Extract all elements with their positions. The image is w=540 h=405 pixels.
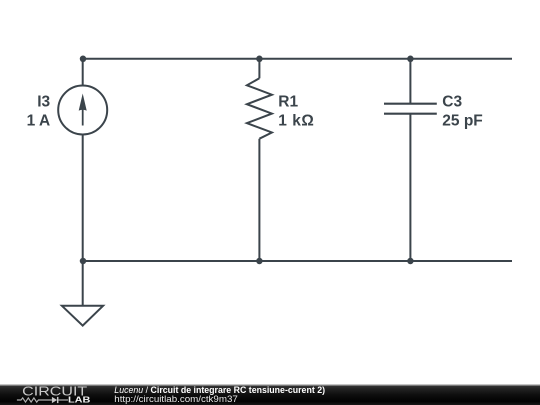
- current source I3: [58, 59, 107, 261]
- svg-text:1 A: 1 A: [27, 112, 51, 129]
- junction: top wire at I3: [80, 56, 87, 63]
- wire: bottom net from I3 to right edge: [83, 260, 512, 262]
- value 25 pF: [442, 112, 482, 129]
- junction: top wire at C3: [407, 56, 414, 63]
- label C3: [442, 94, 462, 111]
- value 1 kOhm: [278, 112, 314, 129]
- label R1: [278, 94, 298, 111]
- junction: bottom wire at I3/ground: [80, 258, 87, 265]
- resistor R1: [247, 59, 272, 261]
- svg-text:1 kΩ: 1 kΩ: [278, 112, 314, 129]
- wire: top net from I3 to right edge: [83, 58, 512, 60]
- CircuitLab logo: [17, 384, 90, 405]
- svg-text:25 pF: 25 pF: [442, 112, 482, 129]
- junction: bottom wire at R1: [256, 258, 263, 265]
- title text: [114, 385, 325, 395]
- junction: bottom wire at C3: [407, 258, 414, 265]
- junction: top wire at R1: [256, 56, 263, 63]
- footer bar: [0, 385, 540, 405]
- url text: [114, 394, 238, 404]
- capacitor C3: [384, 59, 437, 261]
- value 1 A: [27, 112, 51, 129]
- svg-text:http://circuitlab.com/ctk9m37: http://circuitlab.com/ctk9m37: [114, 394, 238, 404]
- svg-text:LAB: LAB: [68, 394, 90, 404]
- svg-text:I3: I3: [37, 94, 50, 111]
- label I3: [37, 94, 50, 111]
- svg-text:C3: C3: [442, 94, 462, 111]
- ground: [62, 261, 103, 326]
- svg-text:R1: R1: [278, 94, 298, 111]
